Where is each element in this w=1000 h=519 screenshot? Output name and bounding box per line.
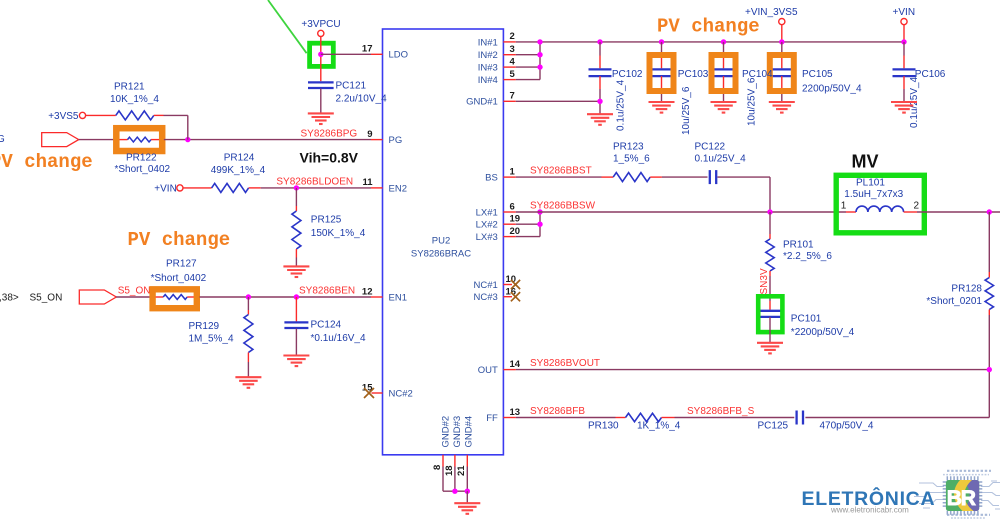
svg-text:PV change: PV change — [0, 151, 93, 173]
wire +3VPCU vertical — [320, 37, 322, 82]
pin stub IN#4 pin5 — [503, 79, 540, 81]
op-amp/regulator IC U=PU2 SY8286BRAC body — [383, 29, 504, 455]
pin label GND#3 — [452, 416, 463, 448]
svg-text:IN#2: IN#2 — [478, 50, 498, 61]
net label SY8286BLDOEN — [276, 177, 353, 188]
resistor PR130 left lead — [616, 417, 626, 419]
pin number 4 — [510, 56, 516, 67]
resistor PR123 value 1_5%_6 — [613, 154, 650, 165]
capacitor PC125 label — [758, 420, 789, 431]
svg-text:PV change: PV change — [128, 229, 231, 251]
pin number 9 — [367, 129, 372, 140]
wire PC124 to ground — [295, 329, 297, 356]
capacitor PC103 value 10u/25V_6 — [681, 86, 692, 135]
pin stub PG pin9 — [371, 139, 383, 141]
resistor PR129 label — [189, 321, 220, 332]
wire LDO horizontal — [321, 53, 371, 55]
pin stub NC#3 pin16 — [503, 296, 512, 298]
capacitor PC124 value *0.1u/16V_4 — [311, 333, 366, 344]
wire output node vertical lower — [988, 315, 990, 418]
capacitor PC101 — [758, 311, 782, 317]
svg-text:1M_5%_4: 1M_5%_4 — [189, 334, 234, 345]
junction PG/PR121 — [185, 137, 190, 142]
green highlight box around LDO node — [310, 43, 334, 66]
green highlight box around PC101 — [758, 296, 782, 332]
net label SY8286BBSW — [530, 200, 596, 211]
svg-text:PL101: PL101 — [856, 177, 885, 188]
junction LDO node — [318, 52, 323, 57]
capacitor PC121 value 2.2u/10V_4 — [336, 94, 388, 105]
svg-text:21: 21 — [456, 465, 467, 476]
orange highlight box around PC104 — [712, 55, 736, 91]
junction IN#2 — [537, 52, 542, 57]
pin label EN1 — [389, 292, 407, 303]
svg-text:PC125: PC125 — [758, 420, 789, 431]
junction rail/IN join — [537, 39, 542, 44]
svg-text:EN2: EN2 — [389, 183, 407, 194]
net label SY8286BFB — [530, 406, 585, 417]
no-connect X on pin 16 — [511, 292, 520, 301]
pin stub IN#1 pin2 — [503, 41, 515, 43]
capacitor PC122 value 0.1u/25V_4 — [695, 154, 747, 165]
annotation PV change (left) — [0, 151, 93, 173]
pin number 12 — [362, 286, 373, 297]
junction LX/PC122/PR101 — [767, 209, 772, 214]
ground under PC103 — [649, 102, 675, 113]
svg-text:499K_1%_4: 499K_1%_4 — [211, 165, 266, 176]
capacitor PC104 value 10u/25V_6 — [747, 77, 758, 126]
off-page connector PG — [42, 133, 79, 147]
resistor PR123 right lead — [650, 176, 662, 178]
svg-text:GND#1: GND#1 — [466, 97, 498, 108]
wire EN1 from connector — [116, 296, 152, 298]
wire IN pins vertical join — [539, 42, 541, 80]
resistor PR121 value 10K_1%_4 — [110, 94, 159, 105]
resistor PR123 — [613, 173, 650, 182]
svg-text:7: 7 — [510, 91, 515, 102]
pin label EN2 — [389, 183, 407, 194]
svg-text:PG: PG — [389, 135, 403, 146]
svg-text:14: 14 — [510, 359, 521, 370]
svg-text:LX#1: LX#1 — [476, 207, 498, 218]
wire LX to PR101 — [769, 212, 771, 239]
pin label GND#1 — [466, 97, 498, 108]
IC value SY8286BRAC — [411, 249, 471, 260]
pin label NC#3 — [474, 292, 498, 303]
power terminal +VIN_3VS5 — [779, 19, 785, 25]
resistor PR129 value 1M_5%_4 — [189, 334, 234, 345]
pin number 13 — [510, 407, 521, 418]
pin label IN#4 — [478, 75, 498, 86]
svg-text:,38>: ,38> — [0, 292, 19, 303]
capacitor PC102 — [589, 42, 612, 114]
resistor PR129 — [244, 315, 253, 353]
resistor PR127 (short) — [163, 295, 187, 300]
capacitor PC103 — [650, 42, 673, 102]
wire EN1 to IC — [200, 296, 372, 298]
junction rail/PC103 — [659, 39, 664, 44]
pin stub IN#2 pin3 — [503, 54, 540, 56]
resistor PR130 value 1K_1%_4 — [637, 420, 681, 431]
svg-text:PC102: PC102 — [612, 69, 643, 80]
svg-text:SY8286BRAC: SY8286BRAC — [411, 249, 471, 260]
ground under PC121 — [308, 113, 334, 124]
svg-text:+VIN: +VIN — [893, 7, 916, 18]
resistor PR127 label — [166, 258, 197, 269]
svg-text:PR123: PR123 — [613, 141, 644, 152]
wire PR101 to PC101 — [769, 276, 771, 310]
logo text ELETRÔNICA — [802, 486, 936, 510]
capacitor PC121 — [308, 82, 334, 88]
pin stub GND#4 pin21 — [466, 455, 468, 467]
wire PC101 to ground — [769, 317, 771, 343]
svg-text:12: 12 — [362, 286, 373, 297]
inductor PL101 — [856, 206, 904, 212]
capacitor PC125 value 470p/50V_4 — [820, 420, 874, 431]
capacitor PC125 — [797, 411, 803, 425]
resistor PR130 label — [588, 420, 619, 431]
pin stub GND#3 pin18 — [454, 455, 456, 467]
svg-text:PC101: PC101 — [791, 314, 822, 325]
junction LX#2 — [537, 222, 542, 227]
resistor PR127 right lead — [187, 296, 199, 298]
resistor PR121 — [116, 111, 154, 120]
wire EN1 to PR129 — [247, 297, 249, 315]
net label SY8286BEN — [299, 286, 355, 297]
svg-text:PC105: PC105 — [802, 69, 833, 80]
pin label BS — [485, 173, 498, 184]
pin number 17 — [362, 44, 373, 55]
svg-text:6: 6 — [510, 201, 515, 212]
wire PR129 to ground — [247, 362, 249, 377]
resistor PR128 bottom lead — [988, 310, 990, 316]
capacitor PC105 value 2200p/50V_4 — [802, 83, 862, 94]
pin label OUT — [478, 365, 498, 376]
capacitor PC122 label — [695, 141, 726, 152]
pin label GND#4 — [464, 416, 475, 448]
svg-text:17: 17 — [362, 44, 373, 55]
resistor PR125 bottom lead — [295, 249, 297, 258]
power terminal +3VS5 — [79, 112, 85, 118]
pin number 19 — [510, 214, 521, 225]
svg-text:*2.2_5%_6: *2.2_5%_6 — [783, 251, 832, 262]
net label SY8286BVOUT — [530, 358, 600, 369]
svg-text:4: 4 — [510, 56, 516, 67]
resistor PR128 — [985, 278, 993, 310]
capacitor PC106 value 0.1u/25V_4 — [909, 76, 920, 128]
junction EN2/PR125 — [294, 185, 299, 190]
resistor PR127 left lead — [152, 296, 163, 298]
wire PG from connector — [79, 139, 115, 141]
junction GND#3 — [452, 489, 457, 494]
resistor PR101 bottom lead — [769, 271, 771, 276]
svg-text:SY8286BVOUT: SY8286BVOUT — [530, 358, 600, 369]
svg-text:19: 19 — [510, 214, 521, 225]
wire GND#1 to PC102 — [516, 100, 600, 102]
inductor PL101 label — [856, 177, 885, 188]
svg-text:9: 9 — [367, 129, 372, 140]
resistor PR128 label — [951, 283, 982, 294]
resistor PR125 value 150K_1%_4 — [311, 228, 366, 239]
resistor PR129 bottom lead — [247, 353, 249, 363]
resistor PR124 label — [224, 153, 255, 164]
capacitor PC124 — [284, 322, 308, 328]
svg-text:LX#3: LX#3 — [476, 232, 498, 243]
ground under PC124 — [283, 356, 309, 367]
wire PC125 to output node — [805, 417, 989, 419]
power symbol +VIN label (right) — [893, 7, 916, 18]
pin stub GND#2 pin8 — [442, 455, 444, 467]
svg-text:PR101: PR101 — [783, 239, 814, 250]
pin label IN#3 — [478, 63, 498, 74]
power terminal +3VPCU — [318, 30, 324, 36]
capacitor PC102 label — [612, 69, 643, 80]
junction EN1/PR129 — [246, 294, 251, 299]
junction LX#1 — [537, 209, 542, 214]
svg-text:PR125: PR125 — [311, 214, 342, 225]
svg-text:SY8286BFB_S: SY8286BFB_S — [687, 406, 755, 417]
wire FF — [516, 417, 616, 419]
svg-text:PC103: PC103 — [678, 69, 709, 80]
no-connect X on pin 15 — [364, 388, 374, 398]
junction IN#3 — [537, 64, 542, 69]
capacitor PC105 — [770, 42, 793, 102]
svg-text:10u/25V_6: 10u/25V_6 — [747, 77, 758, 126]
svg-text:*0.1u/16V_4: *0.1u/16V_4 — [311, 333, 366, 344]
pin label PG — [389, 135, 403, 146]
svg-text:+3VS5: +3VS5 — [48, 111, 79, 122]
svg-text:1.5uH_7x7x3: 1.5uH_7x7x3 — [844, 189, 903, 200]
svg-text:PR122: PR122 — [126, 153, 157, 164]
svg-text:2200p/50V_4: 2200p/50V_4 — [802, 83, 862, 94]
ground under PC104 — [711, 102, 737, 113]
inductor PL101 left lead — [846, 211, 856, 213]
resistor PR128 top lead — [988, 272, 990, 278]
pin number 2 — [510, 31, 515, 42]
svg-text:SY8286BFB: SY8286BFB — [530, 406, 585, 417]
svg-text:PR128: PR128 — [951, 283, 982, 294]
pin number 10 — [506, 274, 517, 285]
pin stub FF pin13 — [503, 417, 515, 419]
pin stub EN1 pin12 — [371, 296, 383, 298]
green highlight box around PL101 (MV) — [836, 175, 924, 233]
junction rail end +VIN — [901, 39, 906, 44]
resistor PR122 (short) — [128, 137, 152, 142]
pin label IN#2 — [478, 50, 498, 61]
svg-text:*Short_0402: *Short_0402 — [115, 164, 171, 175]
pin number 14 — [510, 359, 521, 370]
ground under PC106 — [891, 102, 917, 113]
wire PR123 to PC122 — [662, 176, 708, 178]
capacitor PC104 — [712, 42, 735, 102]
svg-text:SY8286BLDOEN: SY8286BLDOEN — [276, 177, 353, 188]
svg-text:PR130: PR130 — [588, 420, 619, 431]
svg-text:NC#2: NC#2 — [389, 388, 413, 399]
inductor pin number 2 — [914, 201, 920, 212]
svg-text:*Short_0201: *Short_0201 — [926, 296, 982, 307]
orange highlight box around PC105 — [770, 55, 794, 91]
capacitor PC103 label — [678, 69, 709, 80]
svg-text:2.2u/10V_4: 2.2u/10V_4 — [336, 94, 388, 105]
ground under PC102 — [587, 114, 613, 125]
resistor PR125 label — [311, 214, 342, 225]
net label SY8286BPG — [301, 128, 358, 139]
power terminal +VIN (right) — [901, 19, 907, 25]
green annotation line — [268, 0, 307, 53]
pin stub LX#1 pin6 — [503, 211, 515, 213]
logo url www.eletronicabr.com — [830, 505, 909, 514]
wire PR125 to ground — [295, 258, 297, 267]
ground under PR125 — [283, 266, 309, 277]
resistor PR130 right lead — [662, 417, 675, 419]
svg-text:NC#3: NC#3 — [474, 292, 498, 303]
svg-text:SY8286BEN: SY8286BEN — [299, 286, 355, 297]
svg-text:PR127: PR127 — [166, 258, 197, 269]
svg-text:0.1u/25V_4: 0.1u/25V_4 — [616, 79, 627, 131]
junction GND#4 — [465, 489, 470, 494]
pin number 7 — [510, 91, 515, 102]
resistor PR130 — [626, 413, 662, 421]
resistor PR128 value *Short_0201 — [926, 296, 982, 307]
svg-text:OUT: OUT — [478, 365, 498, 376]
wire GND#3 down — [454, 467, 456, 492]
svg-text:18: 18 — [444, 465, 455, 476]
pin label LX#3 — [476, 232, 498, 243]
pin label GND#2 — [440, 416, 451, 448]
wire +VIN down — [903, 25, 905, 42]
pin label FF — [486, 413, 498, 424]
ground under PR129 — [235, 377, 261, 388]
svg-text:*Short_0402: *Short_0402 — [151, 273, 207, 284]
power symbol +VIN label — [154, 183, 177, 194]
svg-text:3: 3 — [510, 44, 515, 55]
svg-text:SN3V: SN3V — [759, 268, 770, 294]
net label S5_ON (red) — [118, 286, 151, 297]
net label SY8286BFB_S — [687, 406, 755, 417]
pin label LX#2 — [476, 220, 498, 231]
svg-text:SY8286BPG: SY8286BPG — [301, 128, 358, 139]
svg-text:SY8286BBST: SY8286BBST — [530, 166, 592, 177]
junction output node top — [987, 209, 992, 214]
pin stub LDO pin17 — [371, 53, 383, 55]
svg-text:BR: BR — [947, 487, 976, 510]
pin number 16 — [506, 286, 517, 297]
svg-text:150K_1%_4: 150K_1%_4 — [311, 228, 366, 239]
svg-text:2: 2 — [914, 201, 920, 212]
resistor PR125 — [292, 211, 301, 249]
svg-text:LDO: LDO — [389, 50, 409, 61]
svg-text:EN1: EN1 — [389, 292, 407, 303]
pin stub NC#2 pin15 — [372, 392, 383, 394]
svg-text:IN#1: IN#1 — [478, 37, 498, 48]
resistor PR123 left lead — [602, 176, 614, 178]
annotation PV change (top) — [657, 16, 760, 38]
svg-text:5: 5 — [510, 69, 516, 80]
svg-text:Vih=0.8V: Vih=0.8V — [300, 149, 359, 165]
pin label NC#2 — [389, 388, 413, 399]
resistor PR121 right lead — [154, 114, 164, 116]
svg-text:PC122: PC122 — [695, 141, 726, 152]
svg-text:+VIN: +VIN — [154, 183, 177, 194]
svg-text:S5_ON: S5_ON — [30, 292, 63, 303]
wire PR130 to PC125 — [675, 417, 795, 419]
pin number 1 — [510, 166, 516, 177]
junction OUT/output node — [987, 367, 992, 372]
wire GND join to ground — [466, 491, 468, 503]
svg-text:PU2: PU2 — [432, 236, 450, 247]
pin number 3 — [510, 44, 515, 55]
wire GND#2 down — [442, 467, 444, 492]
svg-text:13: 13 — [510, 407, 521, 418]
svg-text:PR124: PR124 — [224, 153, 255, 164]
svg-text:8: 8 — [432, 465, 443, 470]
wire LX to inductor — [516, 211, 846, 213]
wire inductor to output node — [917, 211, 1000, 213]
IC reference PU2 — [432, 236, 450, 247]
orange highlight box around PR127 — [153, 289, 197, 308]
junction rail/PC102 — [597, 39, 602, 44]
pin number 11 — [362, 177, 373, 188]
pin stub LX#3 pin20 — [503, 236, 540, 238]
svg-text:PV change: PV change — [657, 16, 760, 38]
orange highlight box around PC103 — [650, 55, 674, 91]
resistor PR124 right lead — [249, 187, 261, 189]
pin number 5 — [510, 69, 516, 80]
svg-text:GND#2: GND#2 — [440, 416, 451, 448]
resistor PR124 — [212, 183, 249, 192]
svg-text:1: 1 — [510, 166, 516, 177]
capacitor PC101 value *2200p/50V_4 — [791, 327, 855, 338]
capacitor PC122 — [710, 170, 716, 184]
pin label IN#1 — [478, 37, 498, 48]
net label G (cut at edge) — [0, 134, 5, 145]
power symbol +3VS5 label — [48, 111, 79, 122]
orange highlight box around PR122 — [116, 128, 162, 151]
svg-text:+3VPCU: +3VPCU — [301, 19, 340, 30]
capacitor PC104 label — [742, 69, 773, 80]
wire LX pins vertical join — [539, 212, 541, 237]
svg-text:NC#1: NC#1 — [474, 280, 498, 291]
wire GND join horizontal — [443, 490, 467, 492]
svg-text:GND#3: GND#3 — [452, 416, 463, 448]
inductor PL101 value 1.5uH_7x7x3 — [844, 189, 903, 200]
power terminal +VIN (EN2) — [177, 185, 183, 191]
pin stub NC#1 pin10 — [503, 284, 512, 286]
svg-text:www.eletronicabr.com: www.eletronicabr.com — [830, 505, 909, 514]
svg-text:IN#3: IN#3 — [478, 63, 498, 74]
pin number 6 — [510, 201, 515, 212]
pin number 21 — [456, 465, 467, 476]
svg-text:S5_ON: S5_ON — [118, 286, 151, 297]
svg-text:GND#4: GND#4 — [464, 416, 475, 448]
pin number 18 — [444, 465, 455, 476]
svg-text:BS: BS — [485, 173, 498, 184]
svg-text:1: 1 — [841, 201, 847, 212]
no-connect X on pin 10 — [511, 280, 520, 289]
annotation Vih=0.8V — [300, 149, 359, 165]
svg-text:1_5%_6: 1_5%_6 — [613, 154, 650, 165]
svg-text:*2200p/50V_4: *2200p/50V_4 — [791, 327, 855, 338]
svg-text:+VIN_3VS5: +VIN_3VS5 — [745, 7, 798, 18]
resistor PR101 label — [783, 239, 814, 250]
wire BS — [516, 176, 602, 178]
capacitor PC106 — [893, 42, 916, 102]
svg-text:IN#4: IN#4 — [478, 75, 498, 86]
pin stub GND#1 pin7 — [503, 100, 515, 102]
resistor PR121 label — [114, 82, 145, 93]
resistor PR122 label — [126, 153, 157, 164]
net name S5_ON (black) — [30, 292, 63, 303]
